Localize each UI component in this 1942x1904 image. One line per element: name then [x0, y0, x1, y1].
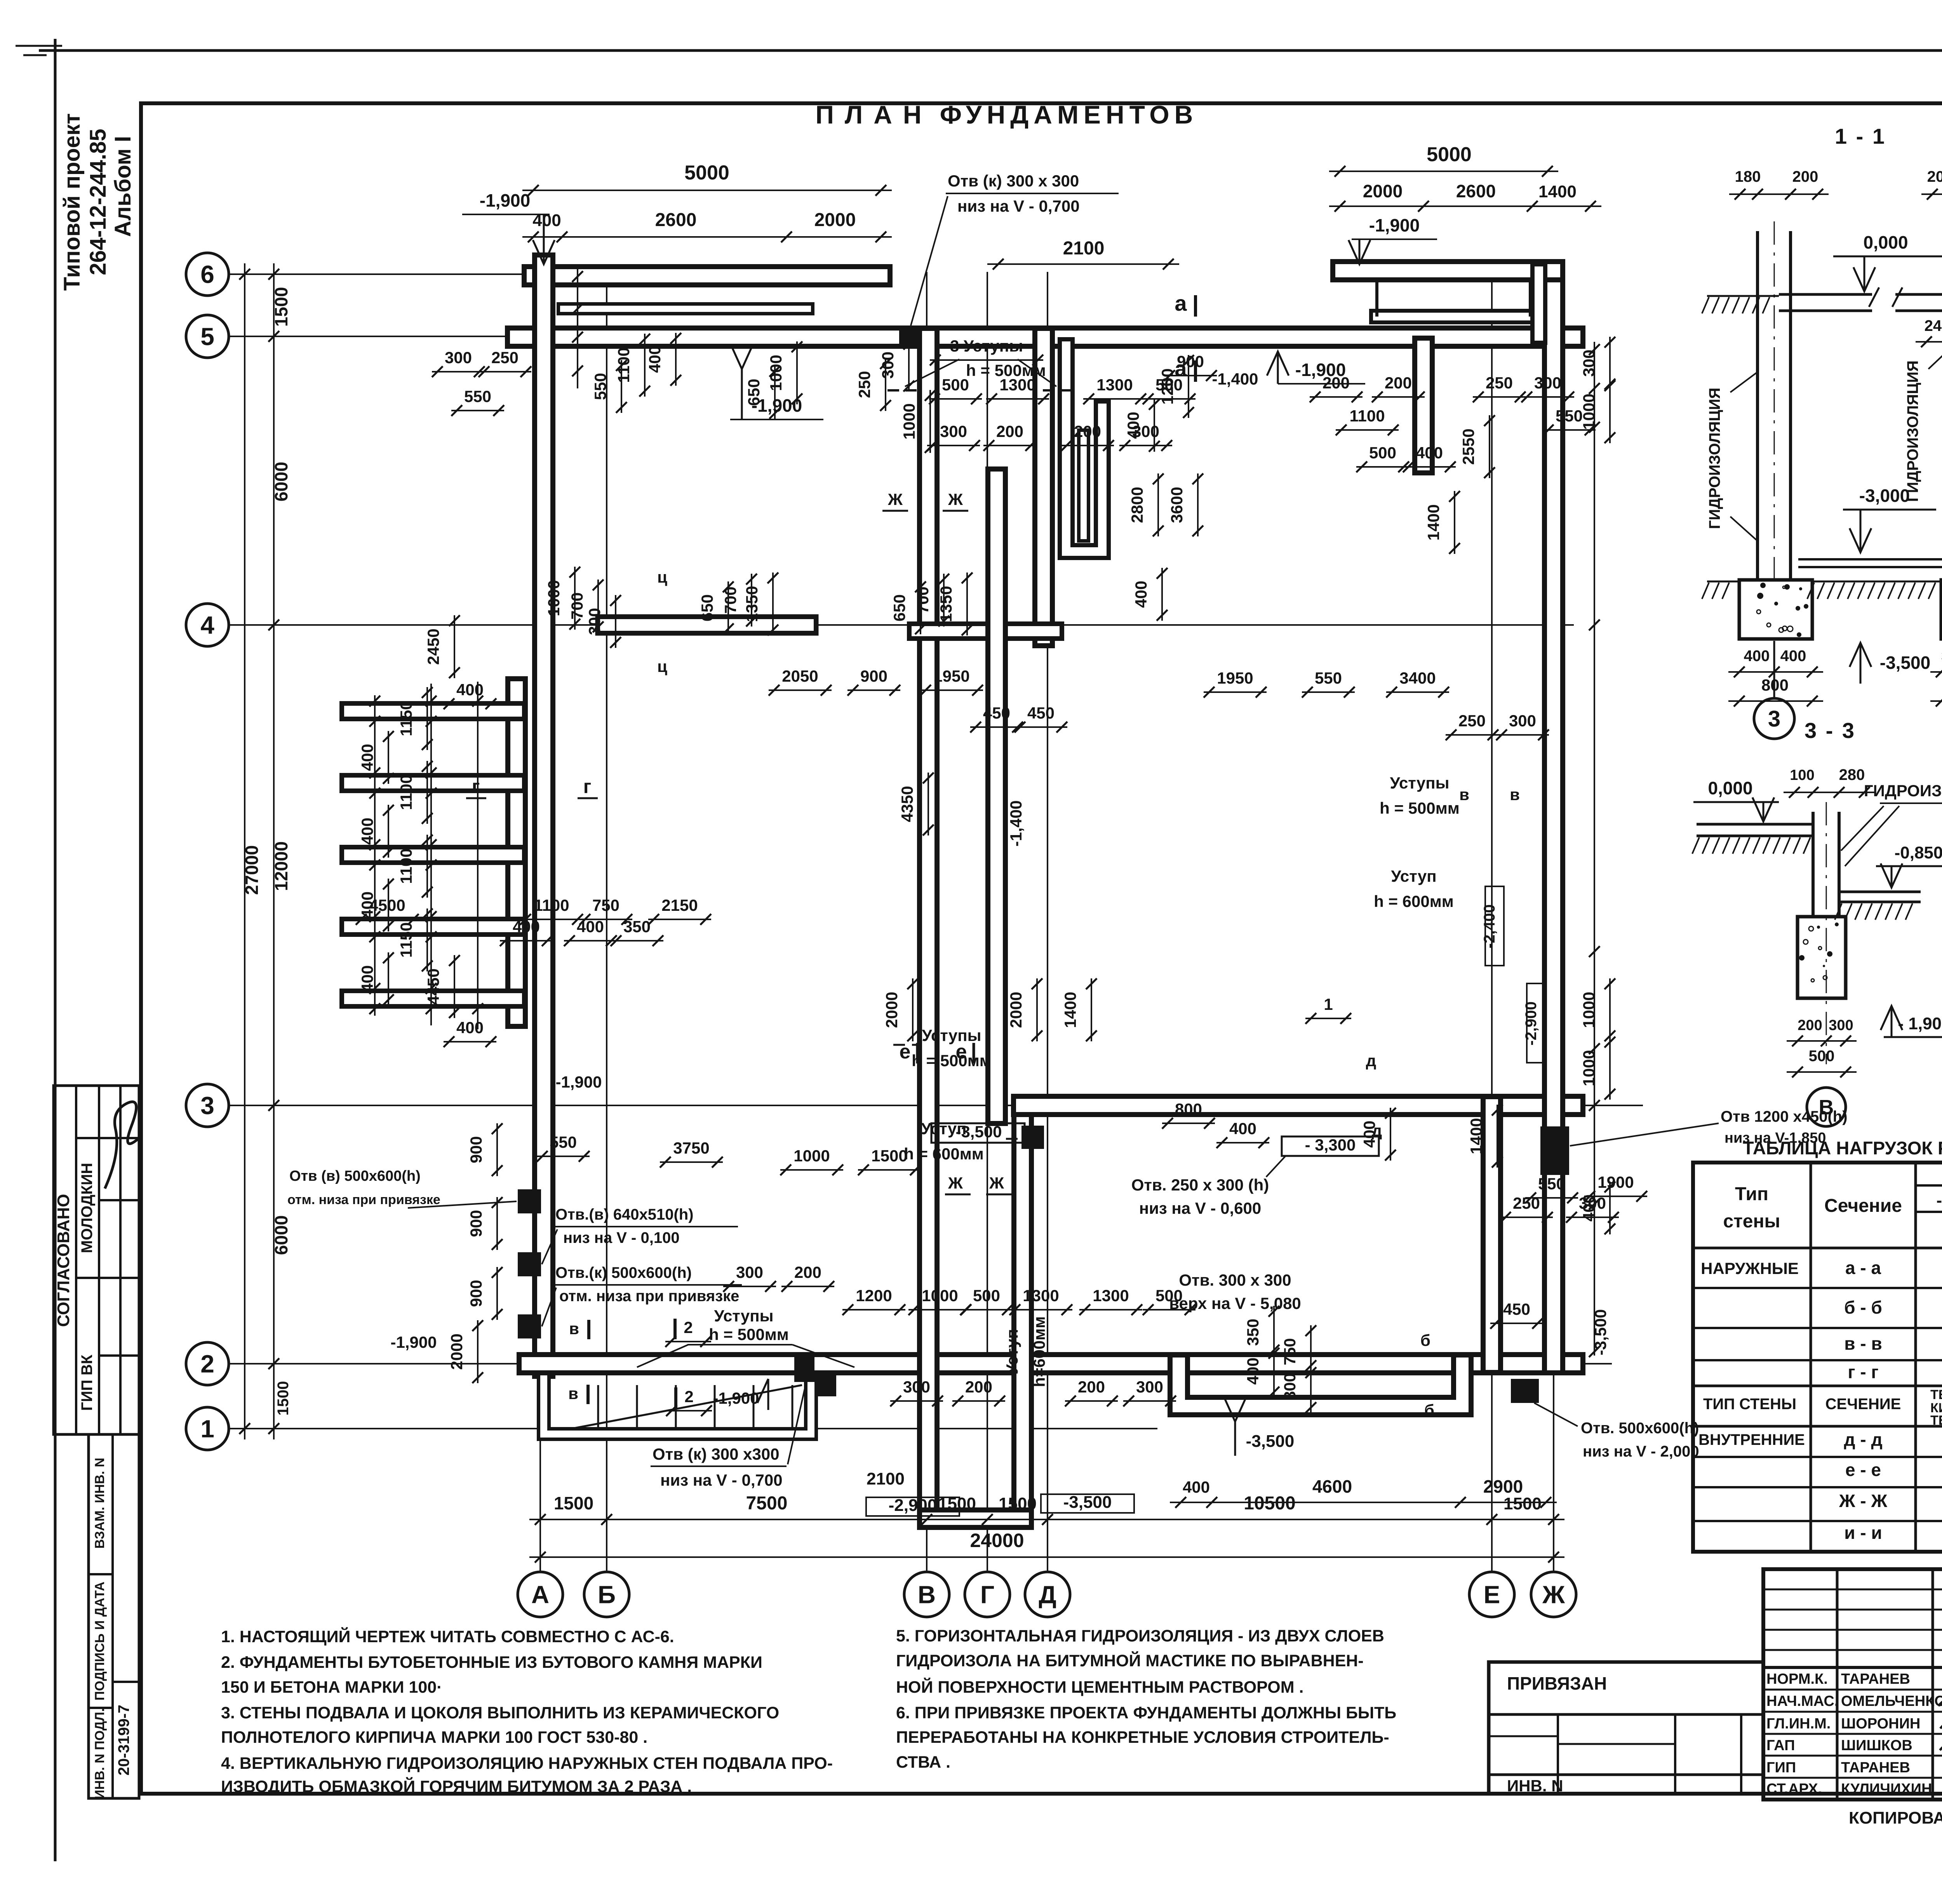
- wall: corridor cross piece near axis 4: [917, 621, 1055, 641]
- svg-text:6: 6: [200, 260, 214, 288]
- svg-text:100: 100: [1790, 767, 1814, 783]
- svg-text:1900: 1900: [1597, 1173, 1634, 1191]
- svg-text:650: 650: [745, 379, 763, 406]
- svg-text:ВЗАМ. ИНВ. N: ВЗАМ. ИНВ. N: [92, 1458, 107, 1549]
- svg-text:500: 500: [942, 376, 969, 394]
- opening blobs on left wall: [518, 1189, 541, 1213]
- svg-text:1: 1: [1324, 995, 1333, 1013]
- section 3-3 axis circle: [1807, 1088, 1846, 1126]
- left dim 27000: [244, 263, 245, 1439]
- opening blob near corridor axis3: [1021, 1126, 1044, 1149]
- svg-text:Отв (к) 300 х300: Отв (к) 300 х300: [653, 1445, 780, 1463]
- wall: long wall along axis 5: [517, 325, 1574, 349]
- wall: axis 3 wall right part: [1023, 1094, 1574, 1117]
- svg-text:200: 200: [996, 422, 1023, 440]
- svg-text:3. СТЕНЫ ПОДВАЛА И ЦОКОЛЯ: 3. СТЕНЫ ПОДВАЛА И ЦОКОЛЯ ВЫПОЛНИТЬ ИЗ К…: [221, 1704, 779, 1722]
- svg-text:ШИШКОВ: ШИШКОВ: [1841, 1737, 1912, 1754]
- svg-text:в - в: в - в: [1844, 1333, 1882, 1354]
- left axis circles: [186, 253, 229, 296]
- svg-text:Е: Е: [1484, 1580, 1500, 1608]
- svg-text:отм. низа при привязке: отм. низа при привязке: [287, 1192, 440, 1207]
- svg-text:5: 5: [200, 322, 214, 350]
- svg-text:Типовой проект: Типовой проект: [59, 113, 85, 291]
- svg-text:1100: 1100: [397, 848, 415, 884]
- svg-text:и - и: и - и: [1844, 1523, 1882, 1543]
- svg-text:550: 550: [464, 387, 491, 406]
- svg-text:ГИДРОИЗОЛЯЦИЯ: ГИДРОИЗОЛЯЦИЯ: [1706, 388, 1723, 529]
- svg-text:низ на V - 0,700: низ на V - 0,700: [660, 1471, 783, 1489]
- svg-text:ТЕМПЕРАТУРА ВНУТРЕННЕГО ВОЗД: ТЕМПЕРАТУРА ВНУТРЕННЕГО ВОЗДУХА. + 18°С: [1930, 1387, 1942, 1402]
- svg-text:ГИДРОИЗОЛА НА БИТУМНОЙ МАСТИ: ГИДРОИЗОЛА НА БИТУМНОЙ МАСТИКЕ ПО ВЫРАВН…: [896, 1651, 1364, 1670]
- svg-text:500: 500: [1809, 1048, 1835, 1065]
- svg-text:ГАП: ГАП: [1766, 1737, 1795, 1754]
- svg-text:1100: 1100: [534, 896, 569, 914]
- svg-text:200: 200: [1323, 374, 1350, 392]
- svg-text:0,000: 0,000: [1708, 778, 1752, 798]
- svg-text:300: 300: [903, 1378, 930, 1396]
- svg-text:h = 600мм: h = 600мм: [1374, 892, 1454, 910]
- title block outer: [1763, 1569, 1942, 1800]
- svg-text:г - г: г - г: [1848, 1362, 1878, 1382]
- svg-text:КУЛИЧИХИН: КУЛИЧИХИН: [1841, 1781, 1932, 1797]
- svg-text:450: 450: [1027, 704, 1055, 722]
- section 1-1 bottom hatch: [1707, 581, 1739, 583]
- svg-text:-3,500: -3,500: [1880, 653, 1930, 673]
- svg-text:низ на V - 2,000: низ на V - 2,000: [1583, 1443, 1699, 1460]
- svg-text:1000: 1000: [794, 1147, 830, 1165]
- svg-text:6. ПРИ ПРИВЯЗКЕ ПРОЕКТА ФУ: 6. ПРИ ПРИВЯЗКЕ ПРОЕКТА ФУНДАМЕНТЫ ДОЛЖН…: [896, 1704, 1396, 1722]
- svg-text:2450: 2450: [424, 628, 442, 665]
- svg-text:МОЛОДКИН: МОЛОДКИН: [78, 1163, 96, 1253]
- svg-text:Отв (в) 500х600(h): Отв (в) 500х600(h): [289, 1168, 421, 1184]
- svg-text:верх на V - 5,080: верх на V - 5,080: [1169, 1294, 1301, 1312]
- svg-text:е: е: [956, 1041, 967, 1063]
- svg-text:2800: 2800: [1128, 487, 1146, 523]
- svg-text:ц: ц: [657, 568, 667, 586]
- teeth dim chain x=965: [374, 695, 376, 1016]
- svg-text:400: 400: [1416, 444, 1443, 462]
- svg-text:д: д: [1366, 1051, 1376, 1070]
- svg-text:4600: 4600: [1312, 1476, 1352, 1497]
- wall: inner ledge of top-left block: [563, 302, 808, 315]
- boxed level -3,300: [1282, 1136, 1379, 1156]
- svg-text:-1,900: -1,900: [480, 190, 530, 211]
- svg-text:НАЧ.МАС.: НАЧ.МАС.: [1766, 1693, 1838, 1709]
- svg-text:5. ГОРИЗОНТАЛЬНАЯ ГИДРОИЗОЛЯ: 5. ГОРИЗОНТАЛЬНАЯ ГИДРОИЗОЛЯЦИЯ - ИЗ ДВУ…: [896, 1627, 1384, 1645]
- sheet outer boundary: [39, 49, 1942, 52]
- svg-text:20-3199-7: 20-3199-7: [115, 1705, 132, 1775]
- привязан box: [1489, 1662, 1763, 1794]
- svg-text:Г: Г: [980, 1580, 994, 1608]
- left dim column 1500/6000/12000/6000/1500: [273, 263, 275, 1439]
- svg-text:ТАБЛИЦА НАГРУЗОК Рн гс/п.м.: ТАБЛИЦА НАГРУЗОК Рн гс/п.м. НА УРОВНЕ ОБ…: [1743, 1138, 1942, 1158]
- svg-text:а: а: [1175, 356, 1187, 381]
- svg-text:ТЕМПЕРАТУРА НАРУЖНОГО ВОЗДУХ: ТЕМПЕРАТУРА НАРУЖНОГО ВОЗДУХА :: [1930, 1413, 1942, 1428]
- section 1-1 middle footing: [1941, 580, 1942, 639]
- svg-text:2050: 2050: [782, 667, 818, 685]
- svg-text:400: 400: [1183, 1478, 1210, 1496]
- bottom axis circles: [518, 1572, 563, 1617]
- dim 2100: [987, 263, 1179, 265]
- svg-text:Ж: Ж: [989, 1174, 1004, 1192]
- svg-text:1150: 1150: [397, 701, 415, 736]
- load table horizontals: [1916, 1184, 1942, 1187]
- svg-text:5000: 5000: [684, 162, 729, 184]
- svg-text:1000: 1000: [922, 1286, 958, 1305]
- svg-text:ц: ц: [657, 657, 667, 675]
- svg-text:24000: 24000: [970, 1530, 1024, 1551]
- svg-text:2000: 2000: [447, 1333, 466, 1370]
- svg-text:1350: 1350: [937, 586, 955, 622]
- section 3-3 bottom dims: [1787, 1040, 1857, 1042]
- svg-text:0,000: 0,000: [1863, 232, 1908, 252]
- svg-text:2600: 2600: [1456, 181, 1496, 201]
- svg-text:10500: 10500: [1244, 1493, 1295, 1514]
- title block verticals: [1836, 1569, 1839, 1800]
- svg-text:д - д: д - д: [1844, 1429, 1882, 1450]
- svg-text:400: 400: [513, 917, 540, 936]
- svg-text:ШОРОНИН: ШОРОНИН: [1841, 1716, 1920, 1732]
- svg-text:500: 500: [1369, 444, 1396, 462]
- svg-text:Ж - Ж: Ж - Ж: [1839, 1491, 1887, 1511]
- svg-text:200: 200: [1074, 422, 1101, 440]
- svg-text:низ на V - 0,100: низ на V - 0,100: [563, 1229, 680, 1246]
- svg-text:ОМЕЛЬЧЕНКО: ОМЕЛЬЧЕНКО: [1841, 1693, 1942, 1709]
- svg-text:ФУНДАМЕНТОВ: ФУНДАМЕНТОВ: [940, 100, 1198, 129]
- svg-text:-1,900: -1,900: [555, 1073, 602, 1091]
- svg-text:ПЕРЕРАБОТАНЫ НА КОНКРЕТНЫЕ: ПЕРЕРАБОТАНЫ НА КОНКРЕТНЫЕ УСЛОВИЯ СТРОИ…: [896, 1728, 1389, 1747]
- svg-text:h = 500мм: h = 500мм: [709, 1325, 789, 1344]
- tooth bar 2: [350, 773, 517, 793]
- svg-text:450: 450: [1503, 1300, 1530, 1318]
- wall: bottom wall along axis 2: [528, 1352, 1574, 1375]
- svg-text:750: 750: [1281, 1338, 1299, 1365]
- wall: corridor bottom cap: [928, 1507, 1023, 1530]
- svg-text:350: 350: [623, 917, 651, 936]
- svg-text:2000: 2000: [814, 210, 856, 230]
- svg-text:900: 900: [860, 667, 887, 685]
- axis lines vertical: [539, 272, 541, 1572]
- svg-text:2550: 2550: [1459, 428, 1477, 465]
- svg-text:3600: 3600: [1168, 487, 1186, 523]
- svg-text:1000: 1000: [545, 580, 563, 616]
- wall: top-left block along axis 6: [533, 264, 881, 287]
- svg-text:900: 900: [467, 1136, 485, 1163]
- wall: bottom-right lower strip: [1179, 1364, 1462, 1406]
- svg-text:ТИП СТЕНЫ: ТИП СТЕНЫ: [1703, 1396, 1796, 1413]
- section 3-3 floor right: [1839, 891, 1921, 893]
- section bars в| |2: [587, 1320, 590, 1339]
- svg-text:400: 400: [358, 744, 376, 771]
- svg-text:Уступы: Уступы: [922, 1026, 981, 1044]
- section 1-1 mid dims: [1916, 341, 1942, 343]
- svg-text:Отв. 500х600(h): Отв. 500х600(h): [1581, 1420, 1699, 1437]
- left bottom stamp column: [89, 1434, 139, 1798]
- section 1-1 footing left: [1739, 580, 1812, 639]
- svg-text:7500: 7500: [746, 1493, 788, 1514]
- svg-text:ГИП: ГИП: [1766, 1760, 1796, 1776]
- top-right inner room legs: [1375, 282, 1378, 317]
- svg-text:400: 400: [1780, 647, 1806, 665]
- svg-text:г: г: [472, 776, 480, 797]
- svg-text:1350: 1350: [743, 586, 761, 622]
- dim 2000/2600/1400: [1329, 205, 1601, 207]
- уступы-500 leaders bottom-left: [687, 1344, 792, 1345]
- svg-text:Отв.(в) 640х510(h): Отв.(в) 640х510(h): [555, 1206, 694, 1223]
- svg-text:300: 300: [445, 348, 472, 367]
- wall: right outer wall along axis Ж: [1542, 271, 1565, 1364]
- svg-text:2000: 2000: [882, 992, 901, 1028]
- axis lines horizontal: [229, 273, 882, 275]
- load table grid: [1693, 1163, 1942, 1552]
- section 1-1 bottom dims: [1728, 671, 1823, 673]
- svg-text:1100: 1100: [614, 347, 633, 383]
- svg-text:1100: 1100: [397, 774, 415, 810]
- svg-text:6000: 6000: [271, 462, 291, 501]
- svg-text:2000: 2000: [1363, 181, 1403, 201]
- svg-text:-3,500: -3,500: [955, 1123, 1002, 1141]
- svg-text:Ж: Ж: [948, 1174, 963, 1192]
- svg-text:400: 400: [1132, 581, 1150, 608]
- wall: small room right of corridor: [1066, 346, 1102, 552]
- svg-text:1000: 1000: [900, 403, 918, 439]
- svg-text:Б: Б: [598, 1580, 616, 1608]
- svg-text:2600: 2600: [655, 210, 697, 230]
- svg-text:300: 300: [1136, 1378, 1163, 1396]
- svg-text:ПЛАН: ПЛАН: [815, 100, 932, 129]
- svg-text:ПОЛНОТЕЛОГО КИРПИЧА МАРКИ 1: ПОЛНОТЕЛОГО КИРПИЧА МАРКИ 100 ГОСТ 530-8…: [221, 1728, 647, 1747]
- svg-text:500: 500: [973, 1286, 1000, 1305]
- svg-text:ГЛ.ИН.М.: ГЛ.ИН.М.: [1766, 1716, 1831, 1732]
- tooth bar 5: [350, 989, 517, 1009]
- wall: axis Е wall lower part: [1481, 1105, 1503, 1364]
- svg-text:Уступы: Уступы: [1390, 774, 1449, 792]
- svg-text:300: 300: [1509, 712, 1536, 730]
- svg-text:1200: 1200: [1158, 368, 1176, 404]
- svg-text:Д: Д: [1039, 1580, 1056, 1608]
- svg-text:ПОДПИСЬ И ДАТА: ПОДПИСЬ И ДАТА: [92, 1582, 107, 1700]
- svg-text:5000: 5000: [1427, 143, 1472, 166]
- svg-text:280: 280: [1839, 766, 1865, 783]
- svg-text:1300: 1300: [1096, 376, 1133, 394]
- svg-text:1500: 1500: [271, 287, 291, 327]
- svg-text:h=600мм: h=600мм: [1030, 1316, 1048, 1387]
- porch ladder bottom-left: [597, 1385, 599, 1430]
- svg-text:Ж: Ж: [948, 490, 963, 508]
- svg-text:Сечение: Сечение: [1824, 1196, 1902, 1216]
- wall: corridor right upper (axis Д): [1032, 337, 1055, 637]
- svg-text:h = 500мм: h = 500мм: [1380, 799, 1460, 817]
- svg-text:2100: 2100: [1063, 238, 1105, 259]
- svg-text:300: 300: [1829, 1017, 1853, 1034]
- svg-text:В: В: [1819, 1096, 1834, 1119]
- svg-text:200: 200: [1798, 1017, 1822, 1034]
- svg-text:400: 400: [1229, 1119, 1256, 1138]
- wall: porch U at bottom left (axis 1): [544, 1377, 811, 1434]
- svg-text:1400: 1400: [1061, 992, 1079, 1028]
- svg-text:1300: 1300: [1023, 1286, 1059, 1305]
- svg-text:2: 2: [200, 1350, 214, 1378]
- svg-text:ВНУТРЕННИЕ: ВНУТРЕННИЕ: [1698, 1431, 1805, 1448]
- svg-text:СОГЛАСОВАНО: СОГЛАСОВАНО: [54, 1194, 73, 1327]
- svg-text:КОПИРОВАЛ:: КОПИРОВАЛ:: [1849, 1808, 1942, 1827]
- wall: corridor right middle: [985, 478, 1008, 1115]
- svg-text:180: 180: [1735, 168, 1761, 185]
- svg-text:h = 600мм: h = 600мм: [904, 1145, 984, 1163]
- svg-text:300: 300: [879, 352, 897, 379]
- svg-text:Отв.(к) 500х600(h): Отв.(к) 500х600(h): [555, 1264, 692, 1281]
- svg-text:3750: 3750: [673, 1139, 709, 1157]
- svg-text:1 - 1: 1 - 1: [1835, 124, 1886, 148]
- svg-text:Отв. 250 х 300 (h): Отв. 250 х 300 (h): [1131, 1176, 1269, 1194]
- opening blob corridor/axis2 crossing: [815, 1375, 836, 1396]
- svg-text:350: 350: [1244, 1319, 1262, 1346]
- svg-text:400: 400: [1244, 1358, 1262, 1385]
- svg-text:650: 650: [698, 594, 716, 621]
- svg-text:Отв. 300 х 300: Отв. 300 х 300: [1179, 1271, 1291, 1289]
- bottom dim row axis spans: [529, 1519, 1564, 1520]
- svg-text:300: 300: [1534, 374, 1561, 392]
- svg-text:-2,900: -2,900: [1523, 1001, 1540, 1045]
- upper-left block chain x=1485: [577, 268, 578, 388]
- svg-text:-0,850: -0,850: [1895, 843, 1942, 862]
- svg-text:1500: 1500: [275, 1381, 292, 1416]
- tooth bar 1: [350, 701, 517, 721]
- svg-text:450: 450: [983, 704, 1010, 722]
- svg-text:ПРИВЯЗАН: ПРИВЯЗАН: [1507, 1673, 1607, 1693]
- svg-text:б: б: [1420, 1331, 1430, 1349]
- svg-text:300: 300: [736, 1263, 763, 1281]
- svg-text:1: 1: [200, 1415, 214, 1443]
- svg-text:1400: 1400: [1467, 1118, 1485, 1154]
- section 3-3 wall: [1811, 812, 1815, 917]
- svg-text:2100: 2100: [867, 1469, 905, 1488]
- wall: segment along axis 4 left: [606, 614, 808, 636]
- svg-text:НАРУЖНЫЕ: НАРУЖНЫЕ: [1701, 1259, 1799, 1277]
- svg-text:6000: 6000: [271, 1215, 291, 1255]
- svg-text:-1,400: -1,400: [1007, 800, 1025, 846]
- title block staff rows: [1763, 1689, 1942, 1691]
- svg-text:ТАРАНЕВ: ТАРАНЕВ: [1841, 1671, 1910, 1687]
- svg-text:550: 550: [1556, 407, 1583, 425]
- svg-text:Тип: Тип: [1735, 1184, 1768, 1204]
- уступы leader birds: [905, 359, 959, 386]
- svg-text:2. ФУНДАМЕНТЫ БУТОБЕТОННЫЕ: 2. ФУНДАМЕНТЫ БУТОБЕТОННЫЕ ИЗ БУТОВОГО К…: [221, 1653, 762, 1672]
- wall stub right of Ж top: [1530, 271, 1547, 336]
- svg-text:800: 800: [1175, 1100, 1202, 1118]
- svg-text:Уступ: Уступ: [1391, 867, 1436, 885]
- svg-text:Ж: Ж: [887, 490, 903, 508]
- svg-text:1950: 1950: [933, 667, 969, 685]
- svg-text:1400: 1400: [1538, 182, 1577, 201]
- svg-text:2000: 2000: [1007, 992, 1025, 1028]
- svg-text:- 1,900: - 1,900: [1898, 1014, 1942, 1033]
- svg-text:200: 200: [1927, 168, 1942, 185]
- svg-text:ГИДРОИЗОЛЯЦИЯ: ГИДРОИЗОЛЯЦИЯ: [1904, 360, 1921, 502]
- svg-text:низ на V - 0,600: низ на V - 0,600: [1139, 1199, 1262, 1217]
- svg-text:1500: 1500: [1503, 1494, 1542, 1513]
- svg-text:ГИП ВК: ГИП ВК: [78, 1354, 96, 1411]
- tooth bar 4: [350, 917, 517, 937]
- svg-text:-1,400: -1,400: [1212, 370, 1258, 388]
- svg-text:250: 250: [1486, 374, 1513, 392]
- svg-text:ИНВ. N: ИНВ. N: [1507, 1777, 1563, 1795]
- svg-text:-1,900: -1,900: [390, 1333, 437, 1351]
- Ж mark underlines: [882, 510, 908, 512]
- opening blob on Ж wall axis3 (1200x450): [1540, 1126, 1569, 1175]
- right side dim chain x=4105: [1594, 342, 1595, 1356]
- svg-text:3 - 3: 3 - 3: [1805, 718, 1856, 743]
- svg-text:550: 550: [1315, 669, 1342, 687]
- svg-text:в: в: [569, 1319, 579, 1338]
- title block horizontals left grid: [1763, 1589, 1942, 1591]
- svg-text:отм. низа при привязке: отм. низа при привязке: [559, 1288, 739, 1305]
- opening blob on Е/axis2 wall: [1511, 1379, 1539, 1403]
- svg-text:3: 3: [1768, 706, 1780, 731]
- svg-text:б: б: [1424, 1401, 1434, 1419]
- svg-text:700: 700: [914, 587, 932, 614]
- opening blob on axis2 wall: [794, 1356, 814, 1382]
- svg-text:-2,400: -2,400: [1481, 904, 1498, 948]
- svg-text:1300: 1300: [1093, 1286, 1129, 1305]
- wall: top-right block inner wall: [1377, 309, 1530, 324]
- wall: left outer wall along axis А: [532, 264, 555, 1367]
- svg-text:-20°С: -20°С: [1937, 1191, 1942, 1210]
- svg-text:400: 400: [1744, 647, 1770, 665]
- wall: corridor left (axis В): [917, 337, 940, 1519]
- svg-text:250: 250: [1513, 1194, 1540, 1212]
- svg-text:- 3,300: - 3,300: [1305, 1136, 1356, 1154]
- svg-text:1400: 1400: [1424, 504, 1443, 540]
- wall: top-right block along axis 6: [1342, 259, 1554, 282]
- svg-text:в: в: [568, 1384, 578, 1403]
- svg-text:-2,900: -2,900: [889, 1496, 937, 1515]
- svg-text:250: 250: [491, 348, 519, 367]
- svg-text:200: 200: [794, 1263, 821, 1281]
- tooth bar 3: [350, 845, 517, 865]
- svg-text:4350: 4350: [898, 786, 916, 822]
- wall: corridor right lower: [1011, 1115, 1034, 1519]
- bottom dim 24000: [529, 1556, 1564, 1558]
- section 1-1 ground hatch left: [1707, 295, 1779, 297]
- section 1-1 top dims: [1729, 193, 1829, 195]
- svg-text:300: 300: [585, 608, 604, 635]
- left stamp table (СОГЛАСОВАНО): [54, 1086, 139, 1434]
- svg-text:Уступы: Уступы: [714, 1307, 773, 1325]
- svg-text:СТВА .: СТВА .: [896, 1753, 950, 1772]
- corridor step dashed lines: [887, 389, 917, 392]
- opening blob on axis5 wall: [899, 325, 922, 349]
- svg-text:А: А: [531, 1580, 549, 1608]
- svg-text:а: а: [1175, 291, 1187, 315]
- svg-text:650: 650: [890, 594, 908, 621]
- svg-text:700: 700: [721, 587, 740, 614]
- wall: porch teeth vertical connector: [505, 687, 528, 1018]
- wall: stub below axis 5 at x 3665: [1412, 347, 1435, 464]
- svg-text:200: 200: [1078, 1378, 1105, 1396]
- svg-text:400: 400: [1124, 412, 1142, 439]
- svg-text:в: в: [1459, 785, 1469, 804]
- svg-text:300: 300: [1579, 1194, 1606, 1212]
- section 1-1 axis circles: [1773, 641, 1775, 697]
- svg-text:1100: 1100: [1349, 407, 1385, 425]
- teeth dim chain x=1230: [477, 682, 479, 1029]
- svg-text:1950: 1950: [1217, 669, 1253, 687]
- section 3-3 top dims: [1784, 792, 1875, 793]
- dim 5000 top-right: [1329, 171, 1558, 172]
- svg-text:низ на V - 0,700: низ на V - 0,700: [957, 197, 1080, 215]
- svg-text:-3,000: -3,000: [1859, 486, 1910, 506]
